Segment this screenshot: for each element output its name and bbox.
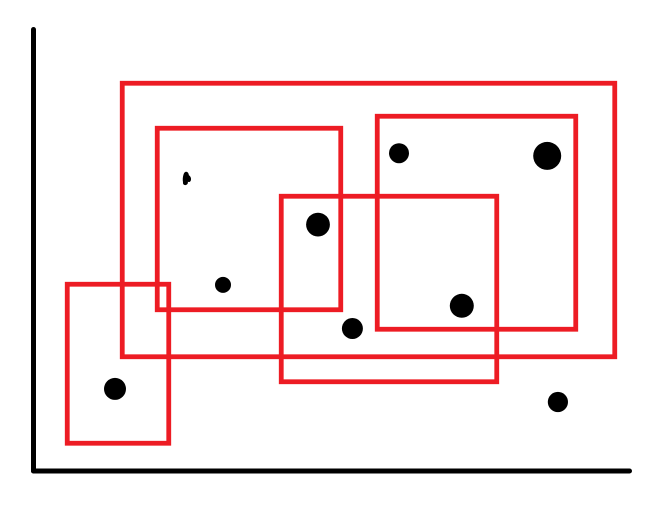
point P8	[104, 378, 126, 400]
point P7	[450, 294, 474, 318]
point P4	[306, 213, 330, 237]
point P9	[548, 392, 568, 412]
box R2 (upper-left red rectangle)	[157, 128, 341, 310]
point P3 (largest dot)	[533, 142, 561, 170]
point P2	[389, 143, 409, 163]
y-axis	[31, 30, 36, 472]
box R4 (center red rectangle)	[281, 196, 497, 382]
point P5	[215, 277, 231, 293]
point P1 (small irregular mark)	[183, 172, 191, 185]
box R5 (lower-left red rectangle)	[67, 284, 169, 443]
x-axis	[34, 469, 630, 474]
box R3 (upper-right red rectangle)	[377, 116, 576, 329]
point P6	[342, 318, 363, 339]
box R1 (large outer red rectangle)	[122, 83, 615, 357]
